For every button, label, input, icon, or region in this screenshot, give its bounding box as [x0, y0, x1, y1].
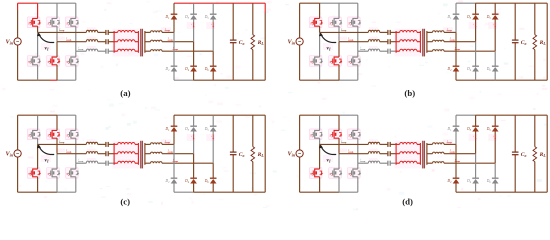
caption (a): [120, 88, 130, 98]
transformer primary right bus: [137, 31, 139, 53]
wire phase2 leg-to-Lr: [57, 41, 86, 43]
wire bridge bottom rail seg1: [18, 191, 57, 193]
arrow v1: [319, 32, 336, 42]
wire leg3 S5-to-node: [75, 26, 77, 51]
wire rect leg1 D-to-node: [173, 131, 175, 144]
label S4: [48, 60, 52, 65]
label current i_D5: [493, 134, 496, 139]
wire phase1 leg-to-Lr: [320, 143, 369, 145]
wire bridge top rail seg2: [339, 114, 358, 116]
wire rectifier bottom rail seg1: [174, 79, 194, 81]
transformer primary winding 1: [396, 143, 420, 145]
wire rect leg2 rail-to-D3: [475, 115, 477, 126]
transistor S4: [331, 169, 343, 177]
diode D5: [210, 14, 217, 19]
wire rectifier bottom rail seg1: [456, 191, 547, 193]
label S5: [66, 22, 70, 27]
wire secondary3 to rectifier: [162, 50, 213, 52]
wire rect leg3 D-to-rail: [494, 71, 496, 80]
wire leg1 S2-to-rail: [37, 65, 39, 81]
wire rect leg1 rail-to-D1: [455, 115, 457, 126]
transformer primary winding 1: [396, 30, 420, 32]
label D3: [184, 127, 190, 132]
wire rect leg1 D-to-rail: [455, 183, 457, 192]
transistor S3: [49, 130, 61, 138]
diode D3: [472, 14, 479, 19]
wire rect leg2 rail-to-D3: [193, 115, 195, 126]
inductor Lr1: [86, 30, 97, 32]
wire leg1 S1-to-node: [319, 26, 321, 32]
label S2: [310, 172, 314, 177]
wire rect leg2 D-to-rail: [475, 183, 477, 192]
wire leg2 node-to-S4: [56, 154, 58, 169]
label S1: [310, 22, 313, 27]
wire leg1 S1-to-node: [37, 26, 39, 32]
label S6: [348, 172, 352, 177]
wire left vertical upper: [299, 115, 301, 150]
transformer core: [141, 141, 143, 169]
wire rect leg2 node-to-D4: [193, 154, 195, 179]
capacitor Cr1: [106, 142, 108, 147]
label current i_D3: [192, 22, 195, 27]
label current i_D3: [474, 22, 477, 27]
wire leg2 node-to-S4: [56, 42, 58, 57]
wire left vertical lower: [17, 45, 19, 80]
transformer primary left bus: [113, 31, 115, 53]
label D6: [204, 67, 210, 72]
label RL: [257, 152, 265, 158]
wire phase3 leg-to-Lr: [76, 50, 87, 52]
inductor Lr1: [368, 30, 379, 32]
wire leg1 S2-to-rail: [37, 177, 39, 193]
wire rect leg2 D-to-node: [475, 19, 477, 41]
wire leg2 rail-to-S3: [56, 115, 58, 130]
label current i_p3: [78, 47, 84, 51]
wire rect leg2 node-to-D4: [475, 154, 477, 179]
wire rectifier bottom rail seg1: [174, 191, 194, 193]
label S1: [28, 22, 31, 27]
label RL: [539, 152, 547, 158]
wire Co branch: [232, 115, 234, 192]
capacitor Cr1: [388, 142, 390, 147]
svg-text:(d): (d): [402, 197, 413, 207]
wire rectifier top rail seg1: [174, 2, 265, 4]
wire secondary2 to rectifier: [162, 153, 194, 155]
label D4: [466, 67, 472, 72]
wire leg3 node-to-S6: [357, 163, 359, 169]
wire bridge bottom rail seg2: [50, 79, 57, 81]
wire bridge top rail seg1: [300, 114, 339, 116]
wire rect leg3 D-to-node: [212, 19, 214, 51]
wire rect leg3 node-to-D6: [212, 51, 214, 66]
arrow v1: [37, 144, 54, 154]
wire rect leg3 rail-to-D5: [212, 115, 214, 126]
label D5: [204, 127, 210, 132]
wire phase2 Cr-to-transformer: [390, 153, 396, 155]
wire leg1 node-to-S2: [37, 144, 39, 169]
label Co: [239, 152, 245, 158]
wire phase1 Lr-to-Cr: [380, 143, 388, 145]
diode D5: [210, 126, 217, 131]
inductor Lr3: [368, 49, 379, 51]
wire leg1 S1-to-node: [37, 138, 39, 144]
wire leg2 S3-to-node: [338, 138, 340, 154]
transformer secondary winding 3: [427, 162, 444, 164]
label v1: [327, 157, 331, 163]
inductor Lr2: [368, 40, 379, 42]
label current i_s2: [450, 37, 456, 41]
diode D1: [171, 126, 178, 131]
wire right edge: [546, 115, 548, 192]
diode D2: [453, 66, 460, 71]
wire Co branch: [514, 115, 516, 192]
label current i_s3: [173, 159, 179, 163]
wire secondary3 to rectifier: [162, 162, 213, 164]
wire phase2 Cr-to-transformer: [108, 153, 114, 155]
inductor Lr1: [368, 142, 379, 144]
wire leg2 rail-to-S3: [56, 3, 58, 18]
wire left vertical lower: [17, 157, 19, 192]
label current i_s1: [165, 140, 171, 144]
wire phase1 Cr-to-transformer: [390, 143, 396, 145]
wire leg3 S6-to-rail: [75, 177, 77, 193]
transformer secondary winding 2: [427, 152, 444, 154]
label D1: [164, 15, 170, 20]
inductor Lr3: [368, 161, 379, 163]
label S3: [48, 134, 52, 139]
wire leg1 rail-to-S1: [319, 3, 321, 18]
inductor Lr2: [86, 152, 97, 154]
capacitor Co: [512, 152, 519, 155]
wire rectifier top rail seg2: [476, 2, 548, 4]
inductor Lr2: [368, 152, 379, 154]
wire rect leg1 D-to-rail: [455, 71, 457, 80]
wire secondary1 to rectifier: [162, 31, 174, 33]
wire phase1 Cr-to-transformer: [108, 143, 114, 145]
wire rect leg3 D-to-rail: [212, 183, 214, 192]
wire leg3 rail-to-S5: [357, 115, 359, 130]
wire phase1 leg-to-Lr: [38, 31, 87, 33]
wire bridge top rail seg2: [57, 114, 76, 116]
wire bridge top rail seg1: [18, 2, 38, 4]
transistor S4: [49, 57, 61, 65]
wire rect leg1 node-to-D2: [455, 32, 457, 66]
wire phase2 leg-to-Lr: [339, 41, 368, 43]
label Co: [239, 40, 245, 46]
wire phase1 leg-to-Lr: [38, 143, 87, 145]
wire rectifier top rail seg1: [456, 114, 476, 116]
voltage source Vin panel a: [14, 38, 21, 45]
label Co: [521, 152, 527, 158]
label D4: [466, 179, 472, 184]
transformer secondary bus: [144, 143, 146, 165]
wire leg3 rail-to-S5: [357, 3, 359, 18]
label current i_s2: [168, 37, 174, 41]
transformer secondary winding 1: [145, 143, 162, 145]
wire phase2 Lr-to-Cr: [98, 153, 106, 155]
resistor RL: [533, 3, 537, 80]
transformer primary left bus: [395, 31, 397, 53]
label S3: [330, 22, 334, 27]
label D5: [486, 15, 492, 20]
wire leg2 S4-to-rail: [338, 65, 340, 81]
svg-text:(b): (b): [404, 88, 415, 98]
transformer core: [423, 141, 425, 169]
label S6: [348, 60, 352, 65]
wire rect leg1 node-to-D2: [173, 144, 175, 178]
label current i_s3: [173, 47, 179, 51]
wire rect leg3 rail-to-D5: [494, 3, 496, 14]
transistor S2: [29, 169, 41, 177]
label current i_p2: [66, 149, 72, 153]
transistor S2: [311, 57, 323, 65]
wire rect leg3 rail-to-D5: [212, 3, 214, 14]
label current i_s3: [455, 159, 461, 163]
label S3: [48, 22, 52, 27]
label S1: [28, 134, 31, 139]
transformer secondary winding 3: [145, 50, 162, 52]
wire phase2 leg-to-Lr: [57, 153, 86, 155]
wire phase2 leg-to-Lr: [339, 153, 368, 155]
wire phase3 Lr-to-Cr: [98, 50, 106, 52]
wire left vertical lower: [299, 157, 301, 192]
label current i_s1: [447, 28, 453, 32]
transformer core: [141, 29, 143, 57]
label D6: [486, 67, 492, 72]
label current i_s3: [455, 47, 461, 51]
wire rect leg1 rail-to-D1: [455, 3, 457, 14]
wire rect leg2 rail-to-D3: [475, 3, 477, 14]
wire leg3 S5-to-node: [75, 138, 77, 163]
label D5: [486, 127, 492, 132]
transistor S5: [350, 130, 362, 138]
diode D2: [171, 178, 178, 183]
wire phase3 Cr-to-transformer: [390, 50, 396, 52]
transistor S5: [68, 18, 80, 26]
capacitor Cr2: [106, 39, 108, 44]
transistor S5: [68, 130, 80, 138]
inductor Lr3: [86, 49, 97, 51]
transformer primary winding 1: [114, 30, 138, 32]
label D3: [184, 15, 190, 20]
inductor Lr3: [86, 161, 97, 163]
transformer primary right bus: [419, 143, 421, 165]
wire Co branch: [514, 3, 516, 80]
wire rectifier top rail seg2: [476, 114, 548, 116]
capacitor Cr1: [106, 30, 108, 35]
label Vin: [287, 39, 295, 46]
diode D4: [190, 178, 197, 183]
wire left vertical upper: [299, 3, 301, 38]
wire leg3 node-to-S6: [75, 163, 77, 169]
wire leg1 rail-to-S1: [37, 3, 39, 18]
voltage source Vin panel d: [296, 150, 303, 157]
wire phase3 Lr-to-Cr: [380, 162, 388, 164]
arrow v1: [319, 144, 336, 154]
transistor S1: [311, 18, 323, 26]
diode D1: [453, 126, 460, 131]
label S1: [310, 134, 313, 139]
wire leg2 S3-to-node: [56, 26, 58, 42]
wire right edge: [546, 3, 548, 80]
wire rect leg2 D-to-rail: [193, 71, 195, 80]
transformer secondary winding 3: [145, 162, 162, 164]
wire phase1 Cr-to-transformer: [108, 31, 114, 33]
wire bridge bottom rail seg3: [57, 79, 76, 81]
transformer secondary bus: [426, 143, 428, 165]
wire rect leg3 D-to-node: [494, 19, 496, 51]
wire rect leg1 D-to-rail: [173, 71, 175, 80]
wire rect leg3 node-to-D6: [494, 163, 496, 178]
label current i_p1: [59, 140, 65, 144]
wire left vertical upper: [17, 115, 19, 150]
wire leg2 node-to-S4: [338, 154, 340, 169]
diode D6: [210, 66, 217, 71]
label D1: [164, 127, 170, 132]
diode D6: [492, 178, 499, 183]
label current i_s1: [447, 140, 453, 144]
wire rect leg1 D-to-rail: [173, 183, 175, 192]
wire rectifier top rail seg1: [456, 2, 476, 4]
label D4: [184, 179, 190, 184]
wire rect leg3 rail-to-D5: [494, 115, 496, 126]
label current i_s2: [168, 149, 174, 153]
wire rect leg2 rail-to-D3: [193, 3, 195, 14]
wire rect leg3 node-to-D6: [212, 163, 214, 178]
transformer primary right bus: [419, 31, 421, 53]
wire bridge bottom rail seg1: [18, 79, 50, 81]
label v1: [45, 45, 49, 51]
label current i_p1: [59, 28, 65, 32]
diode D3: [190, 14, 197, 19]
label current i_s1: [165, 28, 171, 32]
diode D3: [190, 126, 197, 131]
label S5: [348, 134, 352, 139]
wire phase1 Lr-to-Cr: [98, 143, 106, 145]
wire bridge top rail seg2: [320, 2, 358, 4]
wire phase3 Cr-to-transformer: [108, 162, 114, 164]
label S5: [348, 22, 352, 27]
wire secondary2 to rectifier: [444, 153, 476, 155]
diode D1: [453, 14, 460, 19]
wire leg3 S6-to-rail: [357, 177, 359, 193]
label current i_D5: [211, 134, 214, 139]
diode D4: [190, 66, 197, 71]
label S6: [66, 172, 70, 177]
diode D2: [453, 178, 460, 183]
wire left vertical lower: [299, 45, 301, 80]
label Co: [521, 40, 527, 46]
label S2: [28, 60, 32, 65]
wire secondary3 to rectifier: [444, 50, 495, 52]
capacitor Co: [230, 152, 237, 155]
wire rect leg1 D-to-node: [455, 19, 457, 32]
capacitor Cr3: [106, 49, 108, 54]
wire rect leg2 D-to-node: [193, 19, 195, 41]
transformer primary winding 3: [396, 161, 420, 163]
wire phase3 leg-to-Lr: [358, 162, 369, 164]
wire leg3 node-to-S6: [357, 51, 359, 57]
label D6: [204, 179, 210, 184]
transformer secondary winding 3: [427, 50, 444, 52]
diode D6: [492, 66, 499, 71]
caption (b): [404, 88, 415, 98]
transistor S6: [68, 169, 80, 177]
wire leg1 node-to-S2: [37, 32, 39, 57]
transistor S3: [331, 18, 343, 26]
label current i_p2: [348, 149, 354, 153]
label D5: [204, 15, 210, 20]
wire rect leg3 D-to-node: [212, 131, 214, 163]
transistor S3: [49, 18, 61, 26]
capacitor Cr3: [106, 161, 108, 166]
label current i_s2: [450, 149, 456, 153]
transformer secondary winding 2: [145, 152, 162, 154]
transformer primary winding 2: [396, 152, 420, 154]
wire right edge: [264, 3, 266, 80]
capacitor Cr3: [388, 49, 390, 54]
wire leg3 S5-to-node: [357, 138, 359, 163]
wire leg3 rail-to-S5: [75, 115, 77, 130]
diode D4: [472, 66, 479, 71]
wire secondary2 to rectifier: [162, 41, 194, 43]
wire rect leg1 node-to-D2: [173, 32, 175, 66]
wire phase3 Cr-to-transformer: [390, 162, 396, 164]
wire phase2 Cr-to-transformer: [390, 41, 396, 43]
label current i_D3: [192, 134, 195, 139]
transformer secondary winding 1: [145, 31, 162, 33]
wire rect leg1 rail-to-D1: [173, 115, 175, 126]
transformer primary winding 1: [114, 143, 138, 145]
wire rect leg3 D-to-rail: [212, 71, 214, 80]
wire secondary2 to rectifier: [444, 41, 476, 43]
wire leg1 S2-to-rail: [319, 177, 321, 193]
transformer primary winding 3: [114, 161, 138, 163]
wire rect leg3 D-to-node: [494, 131, 496, 163]
diode D1: [171, 14, 178, 19]
wire leg3 rail-to-S5: [75, 3, 77, 18]
label D2: [446, 179, 452, 184]
wire rect leg2 node-to-D4: [475, 42, 477, 67]
diode D5: [492, 14, 499, 19]
wire leg1 rail-to-S1: [37, 115, 39, 130]
wire rect leg2 node-to-D4: [193, 42, 195, 67]
label S5: [66, 134, 70, 139]
wire leg3 node-to-S6: [75, 51, 77, 57]
transformer primary winding 3: [396, 49, 420, 51]
label Vin: [5, 151, 13, 158]
label D6: [486, 179, 492, 184]
caption (c): [120, 197, 130, 207]
transformer primary winding 2: [114, 152, 138, 154]
label current i_D5: [493, 22, 496, 27]
wire leg2 S3-to-node: [338, 26, 340, 42]
wire phase2 Lr-to-Cr: [380, 41, 388, 43]
capacitor Cr2: [388, 39, 390, 44]
wire bridge bottom rail seg1: [300, 191, 339, 193]
label Vin: [5, 39, 13, 46]
label S4: [48, 172, 52, 177]
transistor S6: [350, 57, 362, 65]
label S2: [310, 60, 314, 65]
label S2: [28, 172, 32, 177]
resistor RL: [251, 3, 255, 80]
voltage source Vin panel b: [296, 38, 303, 45]
capacitor Cr1: [388, 30, 390, 35]
wire leg1 S1-to-node: [319, 138, 321, 144]
transistor S4: [331, 57, 343, 65]
wire rect leg2 D-to-rail: [475, 71, 477, 80]
